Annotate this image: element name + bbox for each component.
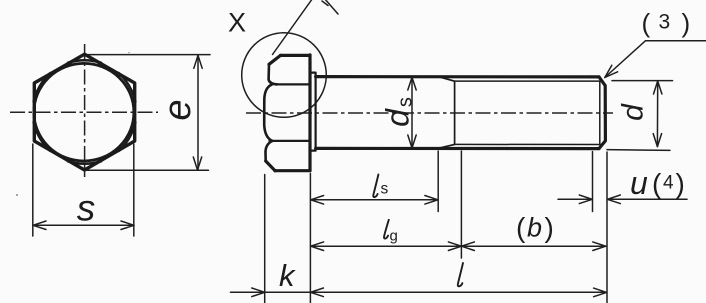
svg-text:d: d [616,103,649,121]
svg-text:b: b [527,213,542,243]
svg-text:u: u [630,165,648,201]
svg-text:s: s [381,181,389,198]
svg-text:k: k [279,258,296,293]
svg-text:X: X [228,8,246,38]
svg-text:4: 4 [663,173,674,194]
svg-text:3: 3 [659,11,671,34]
svg-text:s: s [77,188,96,229]
svg-text:(: ( [516,212,526,243]
svg-text:(: ( [652,168,662,199]
svg-text:): ) [682,8,691,38]
svg-text:e: e [157,99,199,120]
svg-text:): ) [676,168,685,199]
svg-text:): ) [545,212,554,243]
svg-text:(: ( [642,8,651,38]
svg-text:g: g [390,228,398,245]
